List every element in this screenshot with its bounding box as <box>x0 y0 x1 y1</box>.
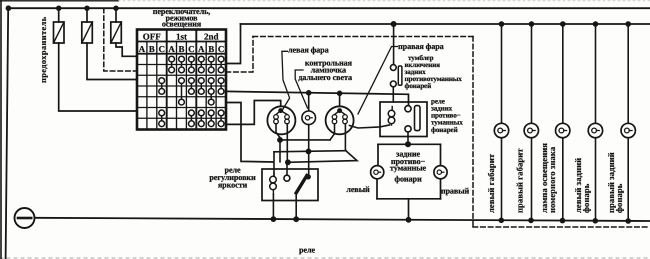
svg-text:правый габарит: правый габарит <box>515 148 525 213</box>
fuse F3 <box>115 8 117 22</box>
svg-text:дальнего света: дальнего света <box>298 73 352 82</box>
svg-text:фонарей: фонарей <box>431 126 458 134</box>
switch contacts row 1 <box>169 56 175 62</box>
node: fuse 2 top junction <box>84 6 89 11</box>
right headlight filament low <box>332 115 337 120</box>
svg-text:реле: реле <box>299 246 315 255</box>
pointer right headlight label <box>358 47 398 115</box>
left headlight unit <box>267 106 295 162</box>
node: toggle feed junction on second bus <box>391 21 397 27</box>
wire: fuse F2 to switch row 3 <box>87 43 137 80</box>
relay K2 coil <box>388 110 395 117</box>
toggle S2 lower terminal <box>390 81 396 87</box>
relay K2 contact terminals <box>405 106 411 112</box>
node: fuse 3 top junction <box>113 6 118 11</box>
wire: left fog lamp leads <box>377 144 378 199</box>
dashed link right of switch <box>226 37 253 73</box>
switch contacts row 6 <box>159 110 165 116</box>
dashed lamp unit boundary bottom <box>473 226 650 228</box>
node: fuse 1 top junction <box>56 6 61 11</box>
control lamp U3 high beam indicator <box>302 93 316 177</box>
wire: control lamp lead down to armature <box>308 125 310 177</box>
svg-text:номерного знака: номерного знака <box>547 146 557 213</box>
node: control lamp junction DOT2 <box>306 149 312 155</box>
relay K1 armature lever <box>296 175 307 193</box>
wire: right headlight feed <box>339 93 341 107</box>
left headlight filament low <box>274 115 279 120</box>
right headlight filament high <box>343 115 348 120</box>
page border left edge <box>0 0 2 259</box>
wire: H2 left drop to relay coil <box>273 152 275 176</box>
wire: control lamp feed <box>308 93 310 111</box>
wire: dimmer contact link W_b <box>288 151 357 162</box>
right headlight unit <box>326 93 390 150</box>
svg-text:туманные: туманные <box>390 164 427 173</box>
svg-text:предохранитель: предохранитель <box>39 16 48 83</box>
svg-text:правая фара: правая фара <box>398 42 444 51</box>
right headlight bulb U4 <box>326 106 354 134</box>
switch S1 contact pattern circles <box>159 56 224 126</box>
svg-text:1st: 1st <box>176 31 187 41</box>
relay K1 coil <box>270 176 277 183</box>
dimmer relay K1 brightness control <box>262 169 318 222</box>
wire: second supply bus to lamps <box>241 23 650 25</box>
svg-text:OFF: OFF <box>143 31 161 41</box>
node: coil ground junction <box>271 216 277 222</box>
wire: right headlight lead A to crossover <box>330 124 335 140</box>
control lamp U3 filament <box>305 116 309 120</box>
wire: left headlight lead B down to dimmer contact <box>286 124 288 163</box>
switch contacts row 2 <box>169 67 175 73</box>
wire: DOT1 drop to dimmer net <box>279 140 281 162</box>
switch contacts row 5 <box>179 99 185 105</box>
svg-text:фонари: фонари <box>394 175 422 184</box>
long contact link col5 rows 3-5 <box>181 84 183 100</box>
wire: right fog lamp leads <box>440 144 442 199</box>
wire: J1 to contact <box>286 162 288 175</box>
toggle S2 upper terminal <box>390 65 396 71</box>
wire: bottom ground bus <box>35 218 650 221</box>
svg-text:левый: левый <box>346 185 370 194</box>
dashed lamp unit boundary top <box>253 36 473 38</box>
wire: switch row 7 to left headlight <box>226 101 281 125</box>
wire: right headlight lead B down <box>344 124 346 151</box>
wire: left vertical feed <box>6 8 9 259</box>
svg-text:A: A <box>198 44 205 54</box>
battery minus terminal <box>15 208 35 228</box>
page border top edge <box>0 0 118 2</box>
left headlight bulb U2 <box>267 106 295 134</box>
switch contacts row 3 <box>159 78 165 84</box>
wire: armature to ground bus <box>295 193 297 219</box>
toggle switch S2 rear fog lamps <box>390 21 402 102</box>
wire: crossover H2 <box>274 151 346 152</box>
wire: top supply bus <box>8 7 650 9</box>
right fog lamp L2 <box>434 166 447 179</box>
svg-text:C: C <box>158 44 165 54</box>
switch contacts row 7 <box>159 121 165 127</box>
node: fog loop ground junction <box>406 217 412 223</box>
lamp L5 licence plate light <box>562 24 564 221</box>
svg-text:B: B <box>178 44 184 54</box>
wire: fog loop to ground bus <box>408 199 410 220</box>
lamp L7 right tail light <box>627 24 629 221</box>
svg-text:фонарь: фонарь <box>614 183 624 213</box>
wire: contact to fog lamp loop <box>407 132 409 144</box>
lamp L3 left marker <box>501 24 503 220</box>
wire: left headlight lead A <box>276 124 280 140</box>
svg-text:B: B <box>208 44 214 54</box>
node: armature ground junction <box>293 216 299 222</box>
svg-text:правый: правый <box>441 187 470 196</box>
dashed mechanical link to switch <box>104 8 137 71</box>
node: dimmer contact junction J1 <box>285 159 291 165</box>
fog lamp relay K2 <box>380 102 427 144</box>
svg-text:C: C <box>218 44 225 54</box>
node: control lamp feed junction <box>306 90 312 96</box>
left fog lamp L1 <box>371 166 384 179</box>
svg-text:левый габарит: левый габарит <box>486 153 496 213</box>
svg-text:B: B <box>149 44 155 54</box>
svg-text:C: C <box>188 44 195 54</box>
rear marker and tail lamps <box>494 21 635 224</box>
page border bottom faint <box>0 257 650 259</box>
contact link col8 rows 4-5 <box>210 94 212 99</box>
svg-text:яркости: яркости <box>218 181 248 190</box>
relay K1 contact terminal <box>284 175 290 181</box>
control lamp U3 bulb <box>302 111 316 125</box>
table column grid <box>147 42 216 130</box>
wire: fog lamp loop top <box>378 143 441 145</box>
svg-text:левая фара: левая фара <box>288 46 329 55</box>
pointer control lamp label <box>295 70 307 108</box>
svg-text:2nd: 2nd <box>204 31 219 41</box>
svg-text:освещения: освещения <box>162 20 202 29</box>
table group separators <box>166 30 168 130</box>
switch contacts row 4 <box>159 89 165 95</box>
wire: bus to toggle <box>393 24 395 65</box>
svg-text:фонарь: фонарь <box>581 183 591 213</box>
svg-text:фонарей: фонарей <box>405 82 432 90</box>
rear fog lamps circuit <box>371 141 448 222</box>
contact links rows 6-7 <box>161 116 163 121</box>
wire: fuse F1 to switch row 7 <box>59 43 137 111</box>
toggle lever bar <box>398 66 402 85</box>
node: right headlight feed junction <box>337 91 343 97</box>
table row grid <box>137 65 226 119</box>
relay K2 contact bar <box>415 106 421 131</box>
node: crossover junction DOT1 <box>277 137 283 143</box>
wire: fog lamp loop bottom <box>377 198 441 200</box>
left headlight filament high <box>285 115 290 120</box>
node: top-left corner junction <box>6 5 12 11</box>
wire: switch rows 1-2 up to second bus <box>226 24 241 64</box>
svg-text:A: A <box>168 44 175 54</box>
node: fog loop top junction <box>405 141 411 147</box>
wire: headlight crossover H1 <box>280 139 330 141</box>
switch S1 light mode selector table frame <box>137 30 226 130</box>
wire: fuse F3 to switch row 1 <box>116 43 137 56</box>
fuse F1 <box>58 8 60 22</box>
wire: right headlight lead C to fog relay coil <box>350 125 390 128</box>
contact links rows 1-2 <box>171 62 173 67</box>
svg-text:A: A <box>139 44 146 54</box>
wire: switch row 4 headlight feed bus <box>226 91 409 105</box>
lamp L4 right marker <box>531 24 533 220</box>
table header separator rows <box>137 41 226 43</box>
pointer left headlight label <box>282 51 290 110</box>
label pointer lines <box>282 47 398 115</box>
wire: toggle to fog relay coil <box>392 87 394 102</box>
dashed lamp unit boundary right <box>472 37 474 228</box>
wire: coil to ground bus <box>272 195 274 220</box>
lamp L6 left tail light <box>595 24 597 221</box>
fuse F2 <box>86 8 88 22</box>
contact links rows 3-4 <box>161 84 163 89</box>
wire: switch row 5 to dimmer relay coil <box>226 103 274 163</box>
